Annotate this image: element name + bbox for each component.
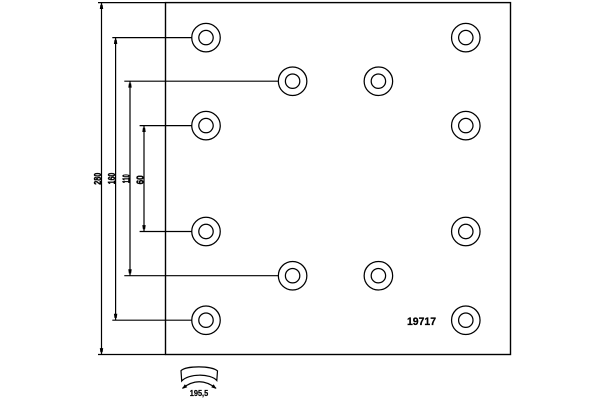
dimension 280: top extension line: [98, 2, 166, 4]
hole H11 (right col, row 3): [452, 217, 481, 246]
hole H6 (col 2, lower): [278, 261, 307, 290]
dimension 160: top arrow: [114, 40, 117, 44]
hole H4 (left col, row 4): [192, 306, 221, 335]
dimension 60: vertical line: [143, 126, 145, 232]
dimension 280: bottom arrow: [100, 348, 103, 352]
hole H2 (left col, row 2): [192, 111, 221, 140]
dimension 280: vertical line: [101, 3, 103, 355]
brake lining outline: [166, 3, 511, 355]
hole H12 (right col, row 4): [452, 306, 481, 335]
hole H10 (right col, row 2): [452, 111, 481, 140]
dimension 110: bottom arrow: [128, 269, 131, 273]
dimension 160: top extension line: [112, 37, 191, 39]
dimension 280: top arrow: [100, 5, 103, 9]
width arc arrow left head: [182, 384, 187, 389]
dimension 160: vertical line: [115, 38, 117, 321]
width arc arrow: [183, 382, 217, 389]
hole H8 (col 3, lower): [364, 261, 393, 290]
hole H5 (col 2, upper): [278, 67, 307, 96]
svg-text:60: 60: [134, 175, 146, 184]
hole H3 (left col, row 3): [192, 217, 221, 246]
dimension 60: bottom extension line: [140, 231, 192, 233]
svg-text:160: 160: [106, 173, 118, 185]
dimension 60: bottom arrow: [142, 225, 145, 229]
svg-text:110: 110: [120, 174, 132, 183]
hole H7 (col 3, upper): [364, 67, 393, 96]
dimension 160: bottom arrow: [114, 314, 117, 318]
svg-text:19717: 19717: [407, 316, 436, 328]
dimension 160: bottom extension line: [112, 319, 191, 321]
hole H9 (right col, row 1): [452, 23, 481, 52]
dimension 110: top arrow: [128, 83, 131, 87]
dimension 60: top extension line: [140, 125, 192, 127]
dimension 110: bottom extension line: [124, 275, 278, 277]
dimension 280: bottom extension line: [98, 354, 166, 356]
dimension 110: vertical line: [129, 81, 131, 276]
dimension 110: top extension line: [124, 80, 278, 82]
svg-text:195,5: 195,5: [190, 388, 209, 398]
hole H1 (left col, row 1): [192, 23, 221, 52]
svg-text:280: 280: [92, 173, 104, 185]
width arc arrow right head: [211, 384, 216, 389]
dimension 60: top arrow: [142, 128, 145, 132]
lining cross-section band: [181, 367, 218, 381]
